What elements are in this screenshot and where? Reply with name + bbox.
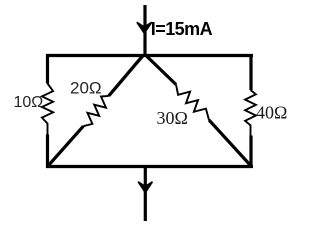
svg-text:10Ω: 10Ω: [14, 94, 44, 111]
wire diagonal lower lead of R2: [48, 126, 84, 166]
wire right branch top lead: [249, 54, 252, 90]
wire left branch top lead: [46, 54, 49, 84]
wire diagonal upper lead of R3: [146, 56, 176, 85]
svg-text:I=15mA: I=15mA: [151, 19, 213, 39]
svg-text:30Ω: 30Ω: [157, 108, 188, 128]
resistor R4 40Ω zigzag: [245, 90, 256, 136]
wire top rail: [46, 54, 253, 57]
wire diagonal lower lead of R3: [209, 120, 252, 167]
arrowhead output current: [138, 182, 152, 193]
resistor R2 20Ω zigzag: [83, 96, 108, 126]
svg-text:40Ω: 40Ω: [256, 103, 287, 123]
wire left branch bottom lead: [46, 135, 49, 169]
wire output line: [144, 167, 147, 222]
arrowhead input current: [137, 22, 152, 33]
wire diagonal upper lead of R2: [109, 56, 143, 96]
wire right branch bottom lead: [249, 136, 252, 169]
wire bottom rail: [46, 165, 253, 168]
svg-text:20Ω: 20Ω: [70, 79, 102, 98]
resistor R1 10Ω zigzag: [42, 84, 53, 136]
resistor R3 30Ω zigzag: [176, 85, 209, 121]
wire current source input line: [143, 5, 146, 57]
